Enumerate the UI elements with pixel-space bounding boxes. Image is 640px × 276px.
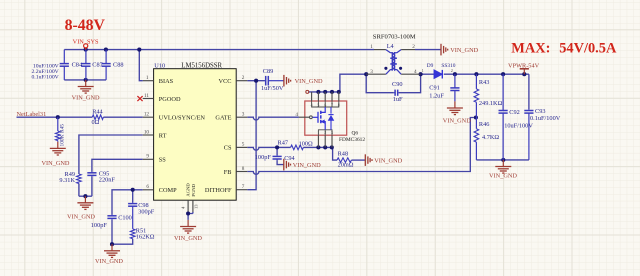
svg-text:GATE: GATE bbox=[215, 115, 231, 122]
svg-text:1: 1 bbox=[370, 44, 373, 50]
wire VCC net bbox=[247, 80, 264, 82]
svg-text:VCC: VCC bbox=[219, 78, 232, 85]
svg-text:0.1uF/100V: 0.1uF/100V bbox=[31, 74, 59, 80]
L4 primary winding bbox=[386, 50, 395, 75]
svg-text:162KΩ: 162KΩ bbox=[136, 233, 155, 240]
pin 10 RT bbox=[143, 134, 154, 136]
capacitor C95 bbox=[91, 172, 93, 173]
svg-text:U10: U10 bbox=[154, 62, 165, 69]
wire COMP bottom rail bbox=[112, 220, 133, 245]
svg-text:100pF: 100pF bbox=[255, 154, 272, 161]
svg-text:2: 2 bbox=[451, 68, 453, 73]
svg-text:NetLabel31: NetLabel31 bbox=[17, 111, 47, 118]
wire VIN rail bbox=[64, 49, 374, 51]
wire COMP C98 branch bbox=[132, 190, 134, 203]
svg-text:1uF: 1uF bbox=[393, 96, 403, 103]
wire input cap bottom rail bbox=[64, 79, 106, 81]
pin 4 AGND bbox=[187, 200, 189, 212]
capacitor C94 bbox=[276, 155, 278, 156]
svg-text:SS: SS bbox=[159, 157, 167, 164]
svg-text:13: 13 bbox=[193, 204, 198, 209]
svg-text:C91: C91 bbox=[429, 85, 440, 92]
resistor R44 bbox=[92, 115, 103, 120]
wire FB net bbox=[247, 118, 474, 175]
svg-text:FDMC3612: FDMC3612 bbox=[339, 137, 365, 143]
L4 core bbox=[391, 52, 393, 71]
svg-text:VIN_GND: VIN_GND bbox=[374, 158, 402, 165]
svg-text:3: 3 bbox=[370, 69, 373, 75]
junction dots bbox=[84, 48, 88, 52]
resistor R51 bbox=[132, 208, 134, 229]
svg-text:Q6: Q6 bbox=[352, 130, 359, 136]
wire RT/SS ground rail bbox=[78, 184, 80, 197]
svg-text:DITHOFF: DITHOFF bbox=[205, 187, 232, 194]
svg-text:SS310: SS310 bbox=[441, 63, 455, 69]
capacitor C100 bbox=[111, 215, 113, 216]
ground VIN_GND R45 bbox=[57, 142, 59, 148]
svg-text:20mΩ: 20mΩ bbox=[338, 162, 354, 169]
svg-text:100K: 100K bbox=[59, 134, 65, 146]
wire CS filter C94 branch bbox=[276, 147, 278, 155]
pin 13 PGND bbox=[192, 200, 194, 212]
svg-text:AGND: AGND bbox=[186, 183, 191, 197]
capacitor C93 bbox=[528, 109, 530, 110]
resistor R49 bbox=[77, 174, 82, 184]
L4 polarity dots bbox=[384, 67, 387, 70]
svg-text:C89: C89 bbox=[263, 68, 274, 75]
wire DITHOFF to VCC bbox=[247, 81, 256, 190]
svg-text:3: 3 bbox=[242, 112, 245, 118]
ground VIN_GND C89 bbox=[283, 75, 285, 87]
svg-text:54V/0.5A: 54V/0.5A bbox=[559, 40, 617, 56]
capacitor C91 bbox=[454, 74, 456, 88]
svg-text:CS: CS bbox=[224, 145, 232, 152]
capacitor C84 bbox=[63, 50, 65, 64]
svg-text:VIN_GND: VIN_GND bbox=[67, 213, 95, 220]
svg-text:5: 5 bbox=[242, 142, 245, 148]
svg-text:C90: C90 bbox=[392, 81, 403, 88]
svg-text:300pF: 300pF bbox=[138, 208, 155, 215]
svg-text:VIN_GND: VIN_GND bbox=[95, 258, 123, 265]
resistor R46 bbox=[475, 118, 477, 129]
svg-text:249.1KΩ: 249.1KΩ bbox=[479, 100, 503, 107]
svg-text:PGND: PGND bbox=[191, 183, 196, 196]
svg-text:BIAS: BIAS bbox=[159, 78, 174, 85]
svg-text:4: 4 bbox=[414, 69, 417, 75]
svg-text:4: 4 bbox=[295, 112, 298, 118]
wire AGND/PGND join bbox=[188, 212, 193, 220]
svg-text:D9: D9 bbox=[427, 63, 434, 69]
svg-text:8-48V: 8-48V bbox=[65, 17, 106, 34]
svg-text:2: 2 bbox=[242, 75, 245, 81]
pin 1 BIAS bbox=[143, 80, 154, 82]
svg-text:LM5156DSSR: LM5156DSSR bbox=[181, 62, 222, 69]
svg-text:VIN_GND: VIN_GND bbox=[42, 160, 70, 167]
capacitor C88 bbox=[105, 50, 107, 64]
wire COMP net bbox=[112, 190, 143, 215]
pin 9 SS bbox=[143, 158, 154, 160]
svg-text:R46: R46 bbox=[479, 121, 490, 128]
wire output bottom rail bbox=[476, 159, 529, 161]
pin 3 GATE bbox=[236, 116, 247, 118]
svg-text:RT: RT bbox=[159, 132, 167, 139]
L4 pin 1 bbox=[374, 49, 386, 51]
svg-text:R47: R47 bbox=[278, 140, 289, 147]
pin 5 CS bbox=[236, 146, 247, 148]
ground VIN_GND output bbox=[502, 160, 504, 166]
svg-text:C100: C100 bbox=[118, 214, 132, 221]
L4 pin 2 bbox=[401, 49, 415, 51]
svg-text:FB: FB bbox=[224, 169, 232, 176]
svg-text:C94: C94 bbox=[284, 155, 295, 162]
svg-text:VPWR-54V: VPWR-54V bbox=[508, 63, 540, 70]
L4 pin 4 bbox=[401, 73, 421, 75]
capacitor C89 bbox=[265, 80, 266, 82]
svg-text:UVLO/SYNC/EN: UVLO/SYNC/EN bbox=[159, 115, 206, 122]
svg-text:VIN_GND: VIN_GND bbox=[489, 172, 517, 179]
wire RT net bbox=[79, 135, 143, 174]
L4 secondary winding bbox=[393, 50, 402, 75]
Q6 drain pins 5-8 bbox=[311, 92, 313, 101]
pin 12 UVLO/SYNC/EN bbox=[143, 116, 154, 118]
svg-text:VIN_GND: VIN_GND bbox=[72, 94, 100, 101]
svg-text:R48: R48 bbox=[338, 151, 349, 158]
svg-text:L4: L4 bbox=[387, 43, 395, 50]
svg-text:6: 6 bbox=[146, 184, 149, 190]
pin 11 PGOOD bbox=[143, 98, 154, 100]
Q6 source pins 1-3 bbox=[317, 135, 319, 147]
wire CS net bbox=[247, 147, 290, 150]
L4 pin 3 bbox=[366, 73, 386, 75]
svg-text:0.1uF/100V: 0.1uF/100V bbox=[530, 115, 561, 122]
svg-text:1: 1 bbox=[422, 68, 424, 73]
svg-text:1.2uF: 1.2uF bbox=[429, 93, 444, 100]
wire CS sense drop to R48 bbox=[333, 147, 337, 160]
svg-text:VIN_GND: VIN_GND bbox=[295, 78, 323, 85]
wire C90 coupling loop bbox=[366, 74, 394, 93]
wire MOSFET drain bus bbox=[308, 91, 340, 93]
ground VIN_GND input bbox=[85, 80, 87, 86]
svg-text:100Ω: 100Ω bbox=[299, 140, 313, 147]
wire primary bottom to drain bbox=[340, 74, 366, 92]
svg-text:12: 12 bbox=[144, 112, 150, 118]
wire GATE net bbox=[247, 117, 299, 120]
diode D9 SS310 bbox=[434, 70, 442, 79]
capacitor C87 bbox=[85, 50, 87, 64]
svg-text:R45: R45 bbox=[59, 124, 65, 133]
svg-text:1: 1 bbox=[146, 75, 149, 81]
svg-text:VIN_GND: VIN_GND bbox=[293, 162, 321, 169]
capacitor C90 bbox=[394, 92, 395, 94]
wire secondary top to ground bbox=[415, 49, 441, 51]
svg-text:C84: C84 bbox=[72, 61, 83, 68]
svg-text:C92: C92 bbox=[509, 109, 520, 116]
svg-text:9: 9 bbox=[146, 154, 149, 160]
svg-text:1uF/50V: 1uF/50V bbox=[261, 85, 284, 92]
power port VIN_SYS bbox=[84, 44, 88, 48]
svg-text:C93: C93 bbox=[535, 108, 546, 115]
pin 6 COMP bbox=[143, 189, 154, 191]
svg-text:VIN_GND: VIN_GND bbox=[443, 117, 471, 124]
svg-text:VIN_GND: VIN_GND bbox=[174, 235, 202, 242]
wire SS net bbox=[92, 159, 143, 171]
ground VIN_GND secondary bbox=[440, 44, 442, 56]
wire diode output rail bbox=[421, 73, 434, 75]
resistor R48 20mOhm shunt bbox=[337, 158, 351, 163]
ground VIN_GND C94 bbox=[283, 159, 285, 171]
svg-text:2: 2 bbox=[412, 44, 415, 50]
svg-text:R43: R43 bbox=[479, 79, 490, 86]
ground VIN_GND RT/SS bbox=[84, 196, 86, 202]
svg-text:R44: R44 bbox=[92, 109, 103, 116]
svg-text:220nF: 220nF bbox=[99, 177, 116, 184]
capacitor C92 bbox=[502, 74, 504, 110]
ground VIN_GND COMP bbox=[111, 244, 113, 250]
svg-text:C87: C87 bbox=[92, 61, 103, 68]
pin 7 DITHOFF bbox=[236, 189, 247, 191]
svg-text:PGOOD: PGOOD bbox=[159, 96, 181, 103]
svg-text:C88: C88 bbox=[113, 61, 124, 68]
pin 8 FB bbox=[236, 171, 247, 173]
op-amp U10 LM5156DSSR bbox=[154, 69, 237, 201]
svg-text:11: 11 bbox=[144, 93, 149, 99]
svg-text:0Ω: 0Ω bbox=[92, 119, 100, 126]
svg-text:SRF0703-100M: SRF0703-100M bbox=[373, 34, 416, 41]
svg-text:VIN_SYS: VIN_SYS bbox=[73, 38, 99, 45]
svg-text:8: 8 bbox=[242, 166, 245, 172]
resistor R45 bbox=[57, 117, 59, 131]
pin 2 VCC bbox=[236, 80, 247, 82]
capacitor C98 bbox=[132, 202, 134, 203]
svg-text:MAX:: MAX: bbox=[511, 40, 550, 56]
svg-text:7: 7 bbox=[242, 184, 245, 190]
power port VPWR-54V bbox=[523, 69, 525, 74]
wire VPWR output caps bbox=[528, 74, 530, 109]
svg-text:10: 10 bbox=[144, 129, 150, 135]
resistor R47 bbox=[291, 145, 304, 150]
svg-text:VIN_GND: VIN_GND bbox=[450, 47, 478, 54]
svg-text:4.7KΩ: 4.7KΩ bbox=[482, 134, 499, 141]
ground VIN_GND R48 bbox=[364, 154, 366, 166]
svg-text:100pF: 100pF bbox=[91, 222, 108, 229]
wire BIAS drop bbox=[139, 50, 143, 81]
svg-text:9.31K: 9.31K bbox=[59, 177, 75, 184]
Q6 MOSFET symbol bbox=[312, 101, 339, 107]
wire UVLO net bbox=[17, 116, 93, 118]
Q6 gate pin 4 bbox=[299, 116, 309, 118]
resistor R43 bbox=[475, 74, 477, 89]
svg-text:COMP: COMP bbox=[159, 187, 177, 194]
no connect X on PGOOD bbox=[137, 96, 142, 101]
transistor Q6 FDMC3612 dashed box bbox=[305, 101, 347, 135]
ground VIN_GND C91 bbox=[454, 101, 456, 107]
ground VIN_GND IC bbox=[187, 220, 189, 226]
